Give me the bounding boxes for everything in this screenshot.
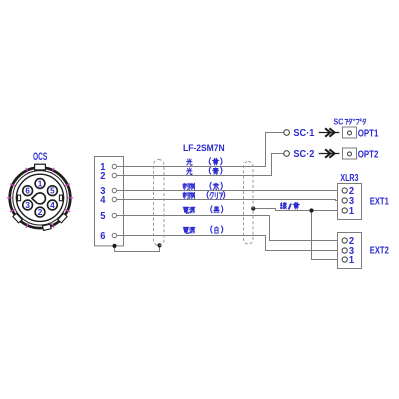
terminal pin 1 circle bbox=[112, 164, 116, 168]
label wire5 dengen (kuro/black) bbox=[183, 207, 189, 213]
wire shield ground from terminal block bottom bbox=[115, 246, 160, 252]
EXT2 pin 1 bbox=[342, 257, 347, 262]
OCS shell tab at 283 deg bbox=[42, 224, 51, 230]
label wire4 seigyo (kuria/clear) bbox=[183, 192, 188, 199]
svg-text:SC·1: SC·1 bbox=[293, 128, 314, 139]
wire green/yellow branch to EXT2 pin1 bbox=[312, 211, 343, 260]
wire 3 seigyo/red : pin3 to EXT1 pin2 bbox=[117, 190, 343, 192]
connector J1 OCS insert inner ring bbox=[16, 174, 63, 221]
SC-2 adapter arrow bbox=[319, 153, 340, 155]
OCS alignment tick marks (magenta) bbox=[7, 168, 73, 228]
label green/yellow (midori/ki) bbox=[280, 203, 286, 209]
OCS pin 2 bbox=[35, 207, 45, 217]
cable shield 1 (dashed capsule) bbox=[154, 160, 165, 246]
svg-text:3: 3 bbox=[25, 201, 30, 210]
junction dot terminal block shield bbox=[112, 244, 116, 248]
svg-text:LF-2SM7N: LF-2SM7N bbox=[183, 143, 225, 154]
EXT1 pin 3 bbox=[342, 198, 347, 203]
OCS shell tab at 222 deg bbox=[13, 213, 22, 223]
svg-text:2: 2 bbox=[38, 208, 43, 217]
label wire3 seigyo (aka/red) bbox=[183, 183, 188, 190]
svg-text:1: 1 bbox=[349, 206, 355, 217]
OCS shell key tab top bbox=[35, 164, 46, 170]
label wire1 hikari (ki/yellow) bbox=[187, 159, 192, 165]
junction dot shield-1 bottom bbox=[157, 243, 161, 247]
SC-1 terminal circle bbox=[284, 130, 290, 136]
OCS pin 6 bbox=[23, 186, 33, 196]
svg-text:XLR3: XLR3 bbox=[340, 173, 358, 184]
OCS pin 5 bbox=[48, 186, 58, 196]
terminal block of cable (pins 1-6) bbox=[95, 157, 124, 246]
terminal pin 4 circle bbox=[112, 197, 116, 201]
label wire2 hikari (ao/blue) bbox=[187, 168, 192, 174]
OCS polarizing slot left bbox=[18, 195, 21, 201]
OCS pin 4 bbox=[48, 200, 58, 210]
svg-text:EXT1: EXT1 bbox=[370, 196, 389, 207]
svg-text:1: 1 bbox=[349, 255, 355, 266]
wire 4 seigyo/clear : pin4 to EXT1 pin3 bbox=[117, 200, 343, 201]
wire 5 dengen/black : pin5 to EXT2 pin2 bbox=[117, 216, 343, 241]
terminal pin 6 circle bbox=[112, 233, 116, 237]
EXT1 pin 1 bbox=[342, 208, 347, 213]
label wire6 dengen (shiro/white) bbox=[183, 227, 189, 233]
wire 1 hikari/yellow : pin1 to SC-1 bbox=[117, 133, 284, 167]
OCS pin 1 bbox=[35, 179, 45, 189]
svg-text:OPT2: OPT2 bbox=[358, 149, 379, 160]
EXT2 connector box bbox=[338, 233, 362, 269]
connector J1 OCS shell outer ring bbox=[10, 168, 71, 229]
OCS polarizing slot right bbox=[59, 195, 62, 201]
wire green/yellow shield drain to EXT1 pin1 bbox=[253, 209, 342, 211]
EXT2 pin 3 bbox=[342, 248, 347, 253]
svg-text:1: 1 bbox=[38, 180, 43, 189]
EXT1 pin 2 bbox=[342, 188, 347, 193]
junction dot shield-2 drain bbox=[251, 206, 255, 210]
svg-text:SC·2: SC·2 bbox=[293, 149, 314, 160]
SC-1 adapter arrow bbox=[319, 132, 340, 134]
svg-text:5: 5 bbox=[50, 187, 55, 196]
terminal pin 5 circle bbox=[112, 213, 116, 217]
wire 2 hikari/blue : pin2 to SC-2 bbox=[117, 154, 284, 176]
OCS centre keyway bbox=[32, 193, 46, 204]
svg-text:OCS: OCS bbox=[33, 151, 47, 163]
svg-text:4: 4 bbox=[100, 195, 106, 206]
svg-text:SC: SC bbox=[334, 118, 344, 127]
OPT2 adapter box bbox=[343, 148, 357, 159]
junction dot green/yellow branch bbox=[309, 208, 313, 212]
svg-text:EXT2: EXT2 bbox=[370, 245, 389, 256]
svg-text:6: 6 bbox=[100, 231, 106, 242]
terminal pin 2 circle bbox=[112, 173, 116, 177]
terminal pin 3 circle bbox=[112, 188, 116, 192]
OCS pin 3 bbox=[23, 200, 33, 210]
OPT1 adapter box bbox=[343, 127, 357, 138]
wire 6 dengen/white : pin6 to EXT2 pin3 bbox=[117, 236, 343, 251]
connector J1 OCS shell middle ring bbox=[13, 171, 67, 225]
svg-text:5: 5 bbox=[100, 211, 106, 222]
svg-text:6: 6 bbox=[25, 187, 30, 196]
EXT1 connector box bbox=[338, 184, 362, 220]
SC-2 terminal circle bbox=[284, 151, 290, 157]
svg-text:OPT1: OPT1 bbox=[358, 128, 379, 139]
cable shield 2 (dashed capsule) bbox=[244, 162, 254, 245]
svg-text:2: 2 bbox=[100, 171, 106, 182]
svg-text:4: 4 bbox=[50, 201, 55, 210]
EXT2 pin 2 bbox=[342, 238, 347, 243]
OCS shell tab at 318 deg bbox=[58, 213, 67, 223]
